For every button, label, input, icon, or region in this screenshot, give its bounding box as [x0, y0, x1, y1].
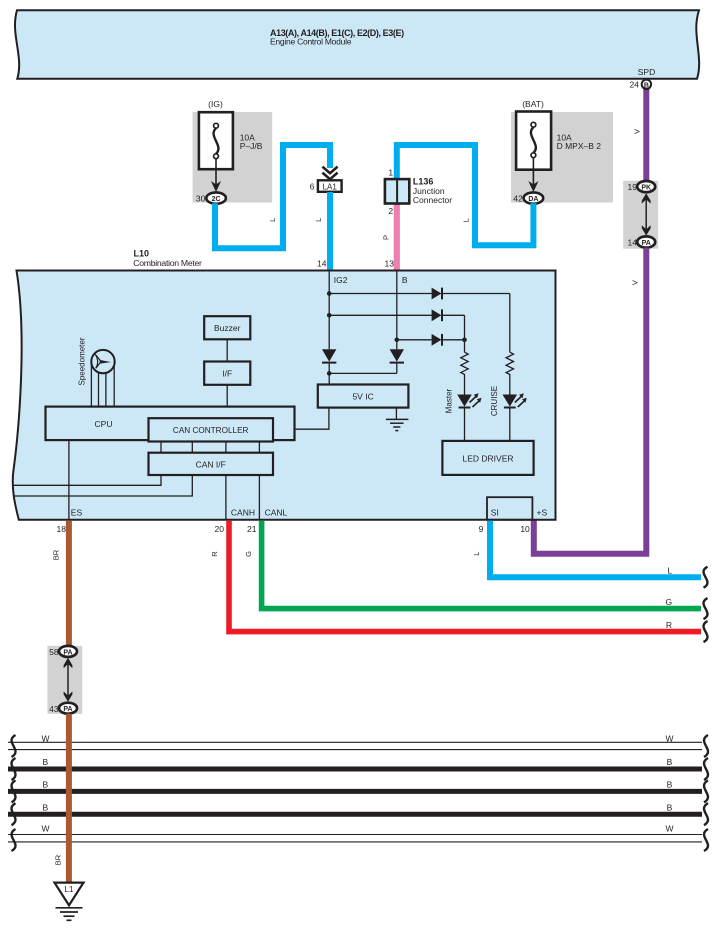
svg-text:30: 30	[196, 194, 206, 204]
Buzzer box	[204, 316, 250, 339]
svg-text:LED DRIVER: LED DRIVER	[462, 454, 513, 464]
svg-text:LA1: LA1	[323, 182, 338, 191]
svg-text:PA: PA	[642, 240, 651, 247]
junction connector L136	[385, 179, 409, 203]
connector LA1 (6)	[318, 180, 342, 192]
terminal 42 DA	[524, 192, 544, 203]
wires speedometer to CPU	[90, 362, 92, 407]
fuse block (BAT) gray background	[511, 112, 613, 203]
diode D5	[432, 334, 442, 346]
svg-text:P–J/B: P–J/B	[240, 141, 263, 151]
svg-text:IG2: IG2	[334, 275, 348, 285]
terminal 30 2C	[206, 192, 226, 203]
svg-text:ES: ES	[71, 508, 83, 518]
svg-text:B: B	[42, 802, 48, 812]
wire from fuse to terminal 30	[215, 159, 217, 188]
wire 5V IC to CPU	[295, 408, 329, 430]
ECM banner: Engine Control Module	[15, 10, 699, 79]
break mark red wire	[704, 621, 708, 642]
svg-text:19: 19	[628, 182, 638, 192]
svg-text:Engine Control Module: Engine Control Module	[270, 37, 352, 47]
terminal 14 PA	[637, 236, 655, 247]
ground of 5V IC	[395, 408, 397, 420]
svg-text:Combination Meter: Combination Meter	[133, 258, 202, 268]
svg-text:L10: L10	[134, 249, 150, 259]
wire row 3 from B to master branch	[397, 339, 432, 341]
svg-text:42: 42	[513, 194, 523, 204]
wire B 2	[8, 789, 702, 794]
combination meter L10 box	[13, 271, 556, 520]
svg-text:V: V	[631, 280, 640, 285]
svg-text:G: G	[665, 597, 672, 607]
wire CAN I/F stub left 1	[14, 475, 162, 485]
svg-text:V: V	[633, 129, 642, 134]
svg-text:CPU: CPU	[95, 419, 113, 429]
wire: blue (L) from terminal 30 to connector LA1	[215, 145, 330, 248]
terminal 19 PK	[637, 181, 655, 192]
resistor R2 (cruise branch)	[506, 352, 513, 374]
wire B 3	[8, 812, 702, 817]
wire B 1	[8, 767, 702, 772]
connector PA/PA (58/43) gray block	[47, 646, 82, 714]
wire: green (G) from pin 21 CANL to right	[262, 521, 701, 609]
diode D2 on B line	[390, 349, 404, 361]
wire CAN I/F to pin 20	[225, 475, 227, 520]
svg-text:+S: +S	[537, 508, 548, 518]
svg-text:B: B	[667, 780, 673, 790]
svg-text:R: R	[666, 620, 672, 630]
svg-text:20: 20	[215, 524, 225, 534]
svg-text:B: B	[667, 757, 673, 767]
svg-text:G: G	[244, 551, 253, 557]
CAN CONTROLLER box	[149, 418, 274, 441]
resistor R1 (master branch)	[461, 352, 468, 374]
svg-text:BR: BR	[54, 854, 63, 865]
fuse block (IG) gray background	[193, 112, 273, 203]
svg-text:W: W	[665, 733, 673, 743]
svg-text:(IG): (IG)	[208, 99, 223, 109]
diode D4	[432, 309, 442, 321]
shield wire W (top)	[8, 741, 702, 743]
svg-text:14: 14	[317, 258, 327, 268]
svg-text:(BAT): (BAT)	[522, 99, 544, 109]
svg-text:W: W	[665, 824, 673, 834]
svg-text:L: L	[667, 566, 672, 576]
svg-text:58: 58	[49, 647, 59, 657]
svg-text:B: B	[667, 802, 673, 812]
svg-text:18: 18	[57, 524, 67, 534]
fuse 10A P-J/B	[199, 112, 233, 169]
node junction dot	[327, 371, 332, 376]
wire joining D2 to D1 output node	[329, 372, 397, 374]
wire: blue (L) from pin 9 SI to right	[490, 521, 701, 577]
svg-text:Buzzer: Buzzer	[214, 323, 241, 333]
SI box	[487, 497, 532, 520]
break mark green wire	[704, 598, 708, 619]
svg-text:B: B	[644, 82, 649, 89]
svg-text:CANL: CANL	[265, 508, 288, 518]
connector arrow into LA1	[322, 167, 337, 174]
diode D1 on IG2 line	[322, 349, 336, 361]
svg-text:PA: PA	[63, 706, 72, 713]
svg-text:PK: PK	[641, 185, 651, 192]
svg-text:L: L	[462, 218, 471, 222]
CAN I/F box	[149, 453, 274, 475]
fuse 10A D MPX-B 2	[516, 112, 551, 170]
wire: blue from LA1 to meter pin 14	[327, 192, 333, 271]
wire row 2 from IG2 to master branch	[329, 314, 431, 316]
shield wire W (bottom)	[8, 834, 702, 836]
svg-text:L1: L1	[65, 885, 74, 894]
svg-text:BR: BR	[51, 549, 60, 560]
svg-text:DA: DA	[528, 196, 538, 203]
LED Cruise	[503, 395, 518, 407]
LED Master	[457, 395, 472, 407]
break marks left of shield wires	[12, 735, 16, 757]
svg-text:1: 1	[388, 167, 393, 177]
svg-text:CANH: CANH	[231, 508, 255, 518]
wire: red (R) from pin 20 CANH to right	[229, 521, 701, 632]
I/F box	[204, 362, 250, 385]
ground L1	[55, 883, 84, 906]
internal wire: B line down	[396, 272, 398, 350]
svg-text:Connector: Connector	[413, 195, 452, 205]
svg-text:Master: Master	[445, 388, 454, 413]
wire CAN I/F to pin 21	[258, 475, 260, 520]
svg-text:D MPX–B 2: D MPX–B 2	[557, 141, 602, 151]
diode D3	[432, 288, 442, 300]
svg-text:B: B	[42, 780, 48, 790]
svg-text:B: B	[402, 275, 408, 285]
svg-text:13: 13	[385, 258, 395, 268]
wire: blue (L) from terminal 42 to junction connector L136	[397, 145, 534, 245]
svg-text:14: 14	[628, 238, 638, 248]
break marks right of shield wires	[704, 735, 708, 757]
wire: purple from PA down, left and up to meter pin 10 (+S)	[534, 248, 647, 554]
svg-text:5V IC: 5V IC	[352, 392, 373, 402]
svg-text:CAN I/F: CAN I/F	[196, 460, 226, 470]
wire: brown (BR) from pin 18 ES down to ground	[66, 521, 72, 646]
svg-text:43: 43	[49, 704, 59, 714]
wire CPU to pin 18	[68, 440, 70, 520]
svg-text:SPD: SPD	[638, 67, 655, 77]
svg-text:CAN CONTROLLER: CAN CONTROLLER	[173, 426, 249, 435]
svg-text:P: P	[382, 235, 391, 240]
terminal 58 PA	[59, 646, 77, 657]
svg-text:9: 9	[479, 524, 484, 534]
svg-text:21: 21	[247, 524, 257, 534]
wire: brown below connector to ground	[66, 714, 72, 884]
wire from fuse to terminal 42	[532, 158, 534, 188]
svg-text:2: 2	[388, 206, 393, 216]
svg-text:R: R	[210, 551, 219, 557]
wire row 1 from IG2 to cruise branch	[329, 293, 431, 295]
svg-text:W: W	[41, 824, 49, 834]
svg-text:L: L	[314, 218, 323, 222]
wire CAN I/F stub left 2	[14, 475, 193, 496]
svg-text:CRUISE: CRUISE	[490, 386, 499, 416]
svg-text:B: B	[42, 757, 48, 767]
connector PK/PA (19/14) gray block	[623, 181, 658, 249]
wire buzzer to I/F	[226, 339, 228, 361]
wire: purple SPD from pin 24 down to connector PK	[643, 88, 649, 182]
CPU box	[46, 407, 295, 441]
break mark blue wire	[704, 567, 708, 588]
internal wire: IG2 line down	[328, 272, 330, 350]
wire I/F to CPU	[226, 385, 228, 407]
svg-text:Speedometer: Speedometer	[78, 337, 87, 385]
double arrow between PK and PA	[645, 198, 647, 231]
svg-text:L: L	[268, 218, 277, 222]
terminal 43 PA	[59, 703, 77, 714]
speedometer	[91, 350, 114, 373]
pin 24 terminal B of ECM	[642, 80, 651, 89]
svg-text:W: W	[41, 733, 49, 743]
wire: pink (P) from junction connector to meter pin 13	[394, 203, 400, 271]
svg-text:2C: 2C	[212, 196, 221, 203]
svg-text:PA: PA	[63, 649, 72, 656]
svg-text:SI: SI	[491, 508, 499, 518]
svg-text:L: L	[472, 552, 481, 556]
svg-text:6: 6	[310, 181, 315, 191]
5V IC box	[318, 385, 409, 408]
svg-text:24: 24	[630, 80, 640, 90]
svg-text:I/F: I/F	[222, 368, 232, 378]
wires CAN controller to CAN I/F	[160, 442, 162, 453]
LED DRIVER box	[442, 441, 533, 475]
svg-text:10: 10	[520, 524, 530, 534]
